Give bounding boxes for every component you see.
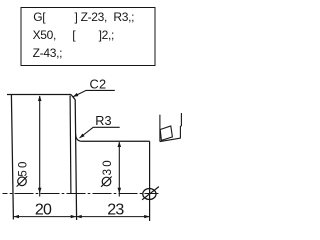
arrow 20 left xyxy=(14,215,20,218)
arrow 23 left xyxy=(76,215,82,218)
tool holder right edge xyxy=(180,113,181,138)
svg-text:R3: R3 xyxy=(95,114,112,128)
arrow C2 leader xyxy=(73,93,79,97)
20/23 dimension line xyxy=(13,216,150,218)
R3 leader xyxy=(80,127,120,138)
centerline xyxy=(3,193,159,195)
step face + extension line xyxy=(75,100,76,220)
dia30 phi symbol xyxy=(102,177,111,186)
arrow dia50 top xyxy=(38,96,42,102)
svg-text:50: 50 xyxy=(18,159,30,176)
tool insert xyxy=(160,126,172,140)
svg-text:30: 30 xyxy=(102,158,114,175)
arrow dia30 bottom xyxy=(118,188,122,194)
dia30 dimension line xyxy=(118,142,120,196)
arrow R3 leader xyxy=(79,134,84,139)
arrow 23 right xyxy=(144,215,150,218)
arrow dia50 bottom xyxy=(38,188,42,194)
tool holder left edge xyxy=(159,115,161,142)
svg-text:[: [ xyxy=(72,28,76,42)
arrow 20 right xyxy=(71,215,77,218)
origin slash xyxy=(142,187,159,200)
part dia30 top line xyxy=(82,140,150,142)
svg-text:] Z-23,: ] Z-23, xyxy=(75,10,108,24)
part left face + extension line xyxy=(11,95,13,220)
arrow dia30 top xyxy=(118,142,122,148)
svg-text:20: 20 xyxy=(35,201,52,218)
fillet R3 xyxy=(76,134,82,141)
dia50 dimension line xyxy=(39,96,41,197)
code box xyxy=(21,8,155,66)
svg-text:]2,;: ]2,; xyxy=(99,28,114,42)
svg-text:Z-43,;: Z-43,; xyxy=(33,46,63,60)
svg-text:X50,: X50, xyxy=(33,28,57,42)
chamfer edge line xyxy=(69,96,72,194)
svg-text:R3,;: R3,; xyxy=(113,10,134,24)
svg-text:G[: G[ xyxy=(33,10,46,24)
part top line (dia50) xyxy=(7,94,71,96)
tool holder bottom edge xyxy=(160,138,181,142)
svg-text:C2: C2 xyxy=(90,76,107,91)
C2 leader xyxy=(73,90,115,96)
part right face + extension line xyxy=(149,141,151,221)
svg-text:23: 23 xyxy=(107,201,124,218)
dia50 phi symbol xyxy=(18,177,27,186)
chamfer C2 line xyxy=(71,95,75,100)
origin circle xyxy=(143,189,156,200)
